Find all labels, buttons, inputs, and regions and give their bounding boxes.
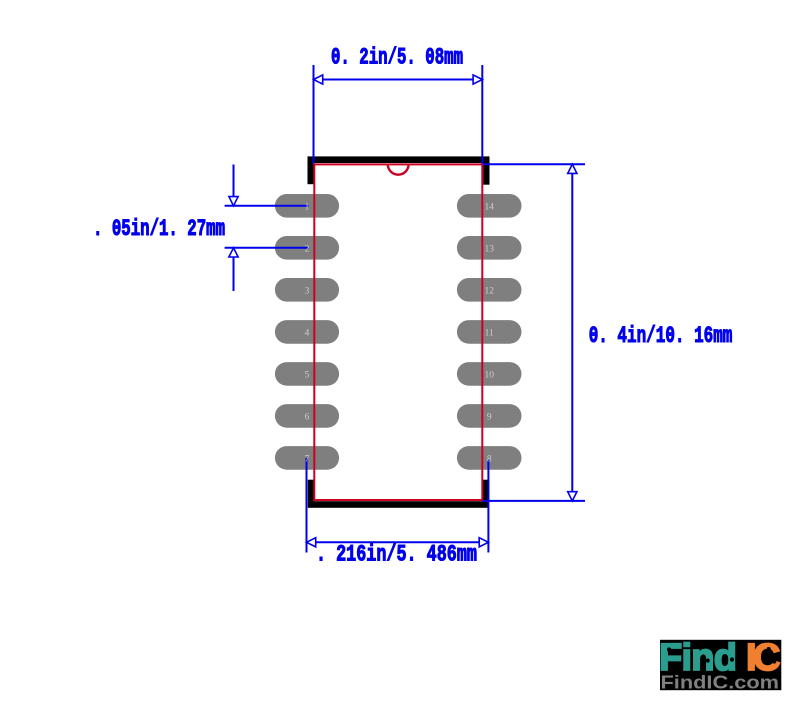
pin number labels — [305, 202, 495, 464]
dimension top width extension line right — [481, 65, 483, 164]
package pin1 index notch — [388, 164, 409, 174]
dimension top arrow left — [314, 75, 323, 84]
dimension bottom extension line left — [306, 458, 308, 553]
silkscreen top bar — [308, 156, 490, 163]
svg-text:3: 3 — [305, 286, 310, 296]
FindIC logo circuit node dots — [667, 647, 671, 651]
svg-text:0. 4in/10. 16mm: 0. 4in/10. 16mm — [589, 323, 733, 349]
svg-text:9: 9 — [487, 412, 492, 422]
svg-text:6: 6 — [305, 412, 310, 422]
silkscreen bottom-left tab — [308, 480, 314, 502]
pad pin 1 — [275, 194, 339, 218]
silkscreen top-left tab — [308, 163, 314, 184]
silkscreen top-right tab — [483, 163, 489, 185]
silkscreen bottom bar — [308, 501, 489, 508]
dimension pitch lower tail — [233, 248, 235, 291]
dimension pitch arrow up — [229, 248, 238, 257]
svg-text:FindIC.com: FindIC.com — [661, 672, 780, 692]
dimension right arrow up — [568, 164, 577, 173]
svg-text:13: 13 — [484, 244, 494, 254]
pad pin 3 — [275, 278, 339, 302]
dimension bottom arrow left — [307, 538, 316, 547]
svg-text:12: 12 — [484, 286, 494, 296]
pad pin 10 — [457, 362, 522, 386]
pad pin 14 — [457, 194, 522, 218]
svg-text:5: 5 — [305, 370, 310, 380]
svg-text:1: 1 — [305, 202, 310, 212]
svg-text:. 05in/1. 27mm: . 05in/1. 27mm — [93, 216, 225, 242]
svg-text:8: 8 — [487, 454, 492, 464]
pad pin 9 — [457, 404, 522, 428]
pad pin 2 — [275, 236, 339, 260]
svg-text:14: 14 — [484, 202, 494, 212]
pad pin 8 — [457, 446, 522, 470]
package body outline — [314, 164, 482, 500]
dimension top arrow right — [473, 75, 482, 84]
dimension pitch lead line pin2 — [225, 247, 309, 249]
svg-text:0. 2in/5. 08mm: 0. 2in/5. 08mm — [331, 45, 463, 71]
dimension top width line — [314, 79, 483, 81]
dimension right height extension line top — [483, 163, 585, 165]
dimension pitch arrow down — [229, 197, 238, 206]
svg-text:. 216in/5. 486mm: . 216in/5. 486mm — [316, 542, 477, 568]
svg-text:2: 2 — [305, 244, 310, 254]
pad pin 12 — [457, 278, 522, 302]
svg-text:11: 11 — [485, 328, 494, 338]
pad pin 11 — [457, 320, 522, 344]
dimension bottom arrow right — [479, 538, 488, 547]
dimension right height extension line bottom — [483, 500, 586, 502]
pad pin 4 — [275, 320, 339, 344]
svg-text:10: 10 — [484, 370, 494, 380]
dimension top width extension line left — [313, 65, 315, 164]
silkscreen bottom-right tab — [483, 480, 489, 502]
dimension bottom line — [307, 541, 489, 543]
dimension pitch upper tail — [233, 165, 235, 206]
pad pin 13 — [457, 236, 522, 260]
pad pin 7 — [275, 446, 339, 470]
dimension right height line — [571, 164, 573, 501]
FindIC logo background — [660, 640, 781, 690]
pad pin 6 — [275, 404, 339, 428]
dimension pitch lead line pin1 — [225, 205, 309, 207]
svg-text:7: 7 — [305, 454, 310, 464]
dimension right arrow down — [568, 492, 577, 501]
dimension bottom extension line right — [487, 460, 489, 553]
pad pin 5 — [275, 362, 339, 386]
svg-text:4: 4 — [305, 328, 310, 338]
